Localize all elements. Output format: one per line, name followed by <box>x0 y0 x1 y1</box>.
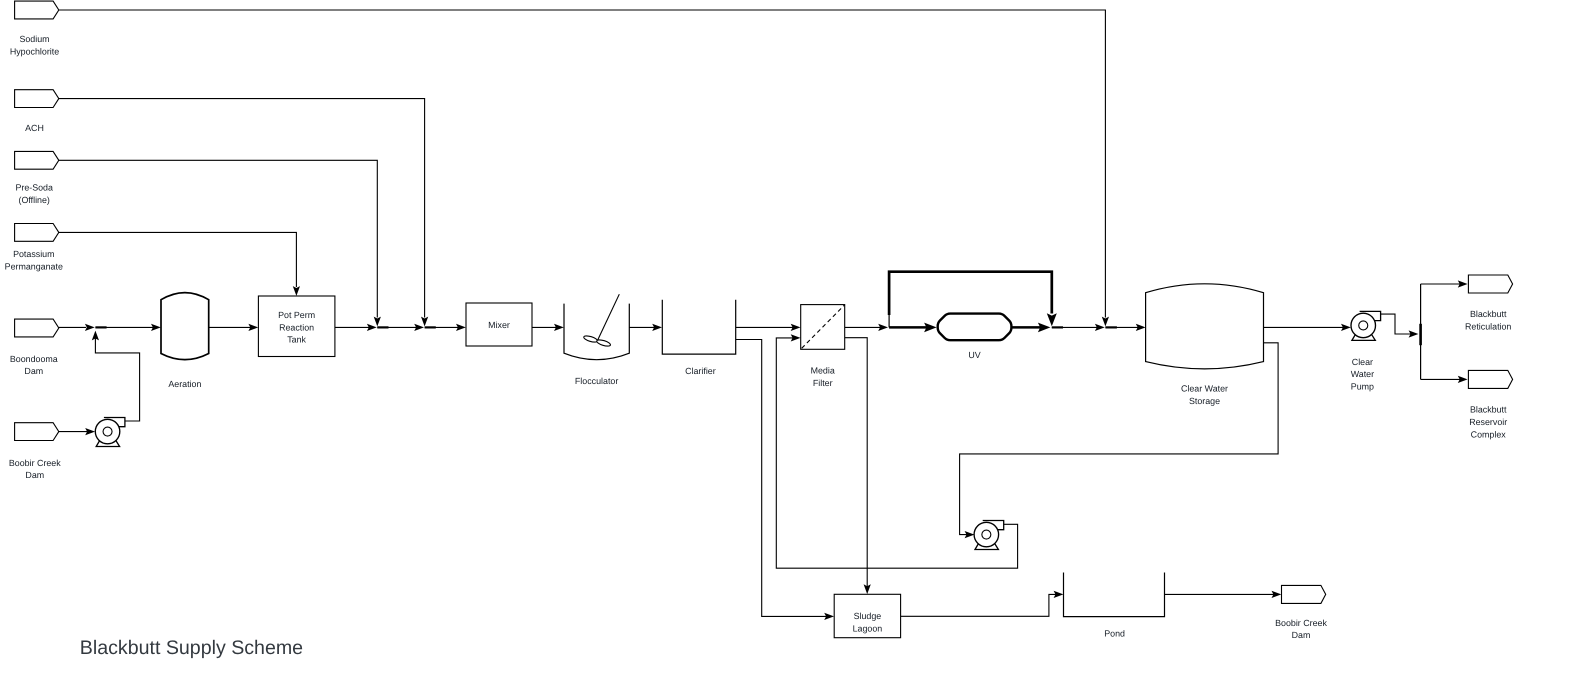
svg-text:Pot Perm: Pot Perm <box>278 310 315 320</box>
svg-text:Boobir Creek: Boobir Creek <box>1275 618 1327 628</box>
svg-text:Reservoir: Reservoir <box>1469 417 1507 427</box>
svg-text:Mixer: Mixer <box>488 320 510 330</box>
svg-text:Pump: Pump <box>1351 382 1374 392</box>
svg-text:Dam: Dam <box>1292 630 1311 640</box>
svg-text:Water: Water <box>1351 369 1374 379</box>
svg-text:Pond: Pond <box>1104 629 1125 639</box>
svg-text:Dam: Dam <box>25 470 44 480</box>
svg-text:Storage: Storage <box>1189 396 1220 406</box>
svg-text:Blackbutt: Blackbutt <box>1470 405 1507 415</box>
svg-text:Clear Water: Clear Water <box>1181 384 1228 394</box>
svg-text:Boondooma: Boondooma <box>10 354 58 364</box>
svg-text:Clarifier: Clarifier <box>685 366 716 376</box>
svg-text:Reaction: Reaction <box>279 322 314 332</box>
svg-text:Clear: Clear <box>1352 357 1373 367</box>
svg-text:Flocculator: Flocculator <box>575 376 618 386</box>
svg-text:Complex: Complex <box>1471 429 1507 439</box>
svg-text:Hypochlorite: Hypochlorite <box>10 47 59 57</box>
svg-text:Lagoon: Lagoon <box>853 623 883 633</box>
svg-text:Media: Media <box>811 366 835 376</box>
svg-text:Permanganate: Permanganate <box>5 261 63 271</box>
svg-text:Pre-Soda: Pre-Soda <box>15 183 53 193</box>
svg-text:Blackbutt Supply Scheme: Blackbutt Supply Scheme <box>80 637 303 659</box>
svg-text:Blackbutt: Blackbutt <box>1470 309 1507 319</box>
svg-text:(Offline): (Offline) <box>18 195 49 205</box>
svg-text:Potassium: Potassium <box>13 249 54 259</box>
svg-text:Dam: Dam <box>24 366 43 376</box>
svg-text:Sodium: Sodium <box>19 34 49 44</box>
svg-text:Tank: Tank <box>287 335 306 345</box>
svg-text:ACH: ACH <box>25 123 44 133</box>
svg-text:Boobir Creek: Boobir Creek <box>9 458 61 468</box>
svg-text:Filter: Filter <box>813 378 833 388</box>
svg-text:Reticulation: Reticulation <box>1465 322 1511 332</box>
svg-text:Aeration: Aeration <box>168 379 201 389</box>
svg-text:UV: UV <box>968 350 980 360</box>
svg-text:Sludge: Sludge <box>854 611 882 621</box>
